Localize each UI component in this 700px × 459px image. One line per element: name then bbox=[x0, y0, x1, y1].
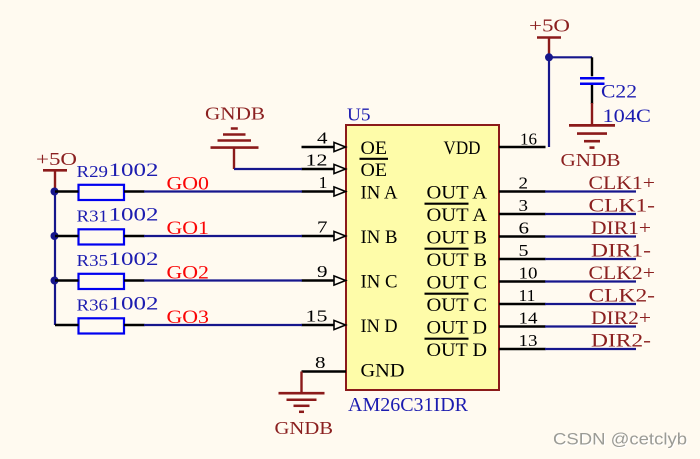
pin 10 lead bbox=[499, 280, 546, 283]
pin 3 lead bbox=[499, 213, 546, 216]
wire net GO1 bbox=[144, 235, 302, 237]
svg-text:AM26C31IDR: AM26C31IDR bbox=[348, 394, 468, 416]
svg-text:CSDN @cetclyb: CSDN @cetclyb bbox=[553, 430, 687, 449]
wire net GO2 bbox=[144, 279, 302, 281]
svg-text:VDD: VDD bbox=[444, 138, 481, 159]
svg-text:GO1: GO1 bbox=[167, 218, 210, 239]
wire +5O right to C22 bbox=[549, 56, 592, 58]
svg-text:CLK1-: CLK1- bbox=[589, 196, 656, 217]
svg-text:1002: 1002 bbox=[109, 249, 159, 270]
ground GNDB (right) stem bbox=[591, 103, 593, 125]
svg-text:R36: R36 bbox=[77, 296, 109, 315]
svg-text:GNDB: GNDB bbox=[205, 104, 265, 124]
wire net DIR1- bbox=[545, 258, 636, 260]
pin 12 lead + input arrow bbox=[302, 168, 335, 171]
svg-text:16: 16 bbox=[520, 130, 537, 149]
svg-text:CLK2-: CLK2- bbox=[589, 286, 656, 307]
svg-text:5: 5 bbox=[519, 241, 529, 260]
svg-text:15: 15 bbox=[306, 307, 328, 326]
resistor R36 body bbox=[79, 318, 125, 333]
svg-text:9: 9 bbox=[317, 262, 328, 281]
svg-text:DIR2-: DIR2- bbox=[591, 331, 651, 352]
svg-text:OUT D: OUT D bbox=[427, 340, 488, 361]
pin 6 lead bbox=[499, 235, 546, 238]
wire net CLK2- bbox=[545, 303, 636, 305]
svg-text:IN B: IN B bbox=[361, 227, 398, 248]
svg-text:2: 2 bbox=[519, 174, 529, 193]
pin 13 lead bbox=[499, 348, 546, 351]
svg-text:1002: 1002 bbox=[109, 205, 159, 226]
power +5O (right) bar symbol bbox=[537, 36, 561, 39]
pin 9 lead + input arrow bbox=[302, 279, 335, 282]
junction node row1 bbox=[51, 188, 59, 196]
svg-text:OUT B: OUT B bbox=[427, 250, 488, 271]
wire net CLK1+ bbox=[545, 190, 636, 192]
svg-text:OE: OE bbox=[361, 138, 388, 159]
resistor R31 body bbox=[79, 229, 125, 244]
svg-text:OUT A: OUT A bbox=[427, 205, 488, 226]
svg-text:IN C: IN C bbox=[361, 272, 398, 293]
svg-text:1002: 1002 bbox=[109, 160, 159, 181]
pin 11 lead bbox=[499, 303, 546, 306]
wire net CLK2+ bbox=[545, 280, 636, 282]
svg-text:10: 10 bbox=[519, 264, 538, 283]
svg-text:GO2: GO2 bbox=[167, 262, 210, 283]
svg-text:DIR1-: DIR1- bbox=[591, 241, 651, 262]
svg-text:OE: OE bbox=[361, 160, 388, 181]
junction node at +5O right bbox=[545, 53, 553, 61]
resistor R35 body bbox=[79, 274, 125, 289]
capacitor C22 bottom lead bbox=[591, 85, 593, 104]
resistor R29 left lead bbox=[55, 190, 79, 192]
svg-text:CLK2+: CLK2+ bbox=[589, 263, 656, 284]
wire net GO0 bbox=[144, 190, 302, 192]
svg-text:GNDB: GNDB bbox=[561, 150, 621, 170]
svg-text:13: 13 bbox=[519, 331, 538, 350]
svg-text:GNDB: GNDB bbox=[275, 418, 334, 438]
capacitor C22 plates bbox=[580, 77, 605, 80]
svg-text:R31: R31 bbox=[77, 207, 109, 226]
IC U5 body bbox=[346, 125, 499, 390]
svg-text:DIR2+: DIR2+ bbox=[591, 308, 651, 329]
resistor R36 right lead bbox=[124, 324, 145, 326]
wire net DIR1+ bbox=[545, 235, 636, 237]
svg-text:GO3: GO3 bbox=[167, 307, 210, 328]
capacitor C22 top lead bbox=[591, 57, 593, 76]
wire +5O down to VDD pin 16 bbox=[548, 57, 550, 147]
pin 7 lead + input arrow bbox=[302, 235, 335, 238]
pin 8 lead bbox=[302, 370, 347, 373]
ground GNDB (bottom) symbol bbox=[279, 392, 325, 395]
pin 15 lead + input arrow bbox=[302, 324, 335, 327]
ground GNDB (top middle) symbol, inverted earth bbox=[231, 127, 238, 130]
svg-text:OUT B: OUT B bbox=[427, 228, 488, 249]
svg-text:8: 8 bbox=[315, 353, 326, 372]
svg-text:R29: R29 bbox=[77, 162, 109, 181]
svg-text:C22: C22 bbox=[601, 82, 637, 103]
junction node row2 bbox=[51, 232, 59, 240]
svg-text:1002: 1002 bbox=[109, 294, 159, 315]
pin 2 lead bbox=[499, 190, 546, 193]
svg-text:OUT D: OUT D bbox=[427, 318, 488, 339]
svg-text:+5O: +5O bbox=[529, 16, 570, 36]
wire net GO3 bbox=[144, 324, 302, 326]
svg-text:R35: R35 bbox=[77, 251, 109, 270]
svg-text:14: 14 bbox=[519, 309, 539, 328]
ground GNDB (bottom) stem bbox=[300, 372, 302, 394]
ground GNDB (right) symbol bbox=[569, 124, 615, 127]
svg-text:12: 12 bbox=[306, 151, 328, 170]
svg-text:7: 7 bbox=[317, 218, 328, 237]
resistor R36 left lead bbox=[55, 324, 79, 326]
resistor R35 left lead bbox=[55, 279, 79, 281]
resistor R31 left lead bbox=[55, 235, 79, 237]
wire from GNDB to pin 12 bbox=[234, 168, 302, 170]
svg-text:GO0: GO0 bbox=[167, 173, 210, 194]
pin 16 lead bbox=[499, 146, 546, 149]
svg-text:U5: U5 bbox=[347, 105, 371, 125]
wire net DIR2+ bbox=[545, 325, 636, 327]
svg-text:GND: GND bbox=[361, 361, 405, 382]
svg-text:OUT C: OUT C bbox=[427, 295, 488, 316]
svg-text:1: 1 bbox=[319, 173, 328, 192]
resistor R35 right lead bbox=[124, 279, 145, 281]
svg-text:4: 4 bbox=[317, 129, 328, 148]
svg-text:OUT A: OUT A bbox=[427, 183, 488, 204]
vertical bus wire from +5O to resistors bbox=[54, 192, 56, 326]
junction node row3 bbox=[51, 277, 59, 285]
wire net CLK1- bbox=[545, 213, 636, 215]
pin 4 lead + input arrow bbox=[302, 146, 335, 149]
svg-text:OUT C: OUT C bbox=[427, 273, 488, 294]
svg-text:6: 6 bbox=[519, 219, 530, 238]
resistor R31 right lead bbox=[124, 235, 145, 237]
wire net DIR2- bbox=[545, 348, 636, 350]
pin 5 lead bbox=[499, 258, 546, 261]
svg-text:IN D: IN D bbox=[361, 316, 398, 337]
svg-text:DIR1+: DIR1+ bbox=[591, 218, 651, 239]
svg-text:CLK1+: CLK1+ bbox=[589, 173, 656, 194]
svg-text:3: 3 bbox=[519, 196, 529, 215]
svg-text:11: 11 bbox=[519, 286, 536, 305]
resistor R29 body bbox=[79, 185, 125, 200]
pin 1 lead + input arrow bbox=[302, 190, 335, 193]
pin 14 lead bbox=[499, 325, 546, 328]
svg-text:104C: 104C bbox=[603, 106, 652, 127]
power +5O (left) bar symbol bbox=[43, 169, 67, 172]
svg-text:+5O: +5O bbox=[36, 149, 77, 169]
resistor R29 right lead bbox=[124, 190, 145, 192]
svg-text:IN A: IN A bbox=[361, 183, 398, 204]
